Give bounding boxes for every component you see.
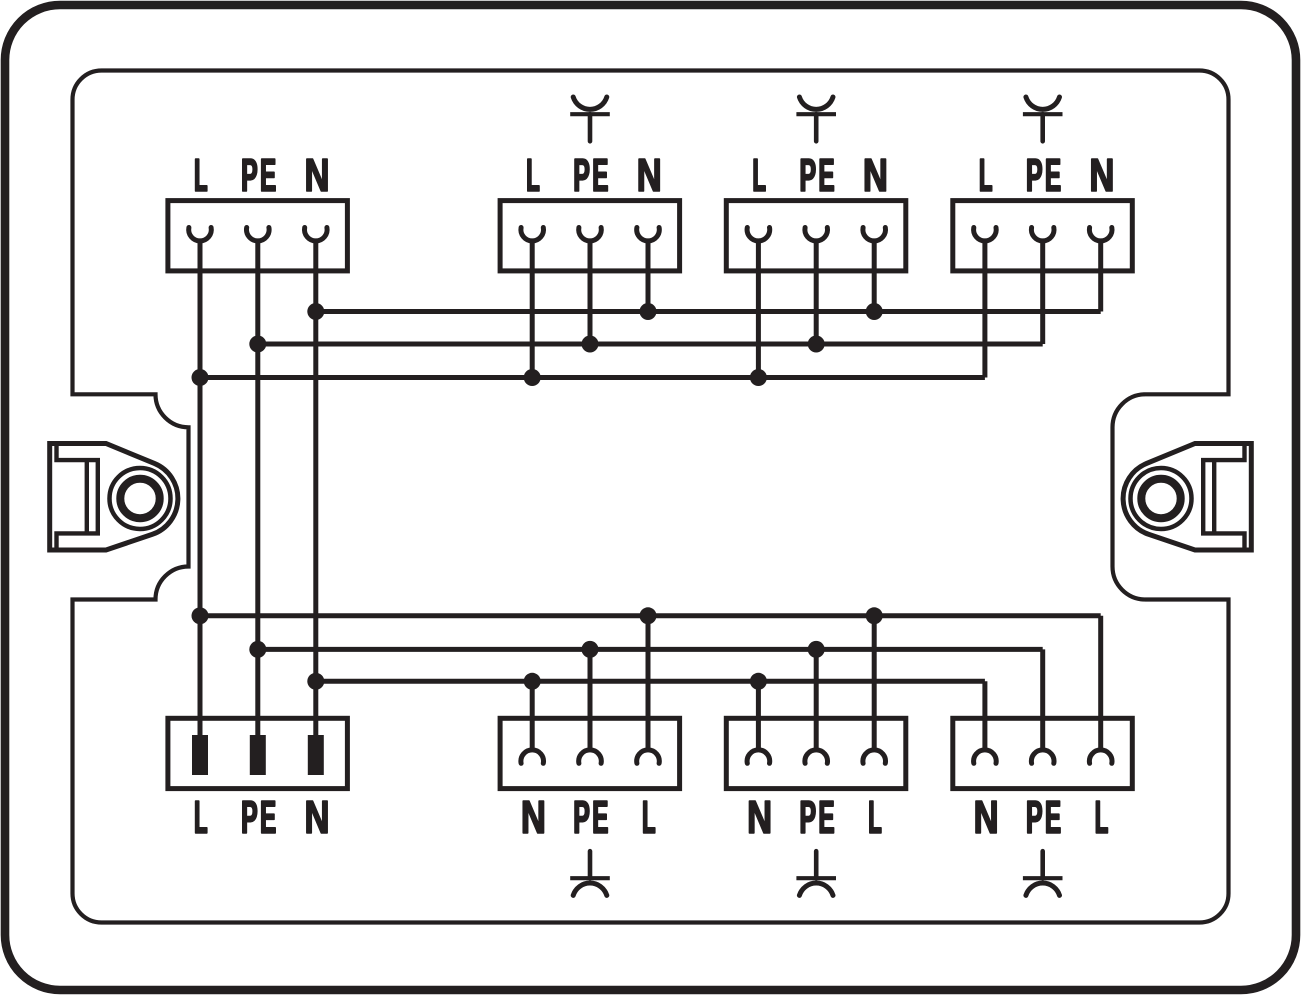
wire PE stem, top box 3 bbox=[814, 241, 819, 344]
clamp contact, top box 3, pin 1 bbox=[747, 228, 770, 241]
label N, top box 4 bbox=[1092, 159, 1112, 191]
top L bus wire bbox=[200, 375, 985, 380]
wire PE stem, top box 4 bbox=[1040, 241, 1045, 344]
wire L stem, bottom box 4 bbox=[1098, 616, 1103, 750]
junction dot bottom 1 bbox=[192, 607, 209, 624]
clamp contact, top box 1, pin 3 bbox=[305, 228, 328, 241]
label PE, top box 2 bbox=[575, 159, 589, 191]
terminal block X8 (bottom row) bbox=[953, 718, 1133, 788]
terminal block X7 (bottom row) bbox=[726, 718, 906, 788]
junction dot bottom 7 bbox=[307, 673, 324, 690]
label L, top box 2 bbox=[528, 159, 539, 191]
clamp contact, bottom box 2, pin 1 bbox=[521, 750, 544, 763]
junction dot bottom 6 bbox=[808, 641, 825, 658]
junction dot bottom 5 bbox=[582, 641, 599, 658]
junction dot bottom 4 bbox=[249, 641, 266, 658]
right mounting lug bbox=[1123, 444, 1251, 551]
label PE, bottom box 3 bbox=[801, 801, 815, 833]
terminal block X5 (bottom row) bbox=[168, 718, 348, 788]
terminal block X3 (top row) bbox=[726, 201, 906, 271]
junction dot bottom 9 bbox=[750, 673, 767, 690]
label L, top box 3 bbox=[754, 159, 765, 191]
label PE, top box 3 bbox=[801, 159, 815, 191]
enclosure inner wall with mounting-lug bays bbox=[73, 71, 1229, 923]
label N, top box 1 bbox=[307, 159, 327, 191]
junction dot top 6 bbox=[808, 336, 825, 353]
clamp contact, bottom box 3, pin 2 bbox=[805, 750, 828, 763]
blade pin, bottom box 1, pin 2 bbox=[250, 735, 266, 775]
junction dot top 3 bbox=[866, 303, 883, 320]
socket-outlet symbol above top box 4 bbox=[1023, 97, 1063, 141]
label PE, top box 1 bbox=[243, 159, 257, 191]
left mounting lug bbox=[50, 444, 178, 551]
clamp contact, top box 2, pin 2 bbox=[579, 228, 602, 241]
clamp contact, bottom box 4, pin 3 bbox=[1089, 750, 1112, 763]
label N, top box 2 bbox=[639, 159, 659, 191]
junction dot bottom 2 bbox=[640, 607, 657, 624]
clamp contact, top box 1, pin 2 bbox=[247, 228, 270, 241]
socket-outlet symbol above top box 2 bbox=[570, 97, 610, 141]
label PE, bottom box 2 bbox=[575, 801, 589, 833]
clamp contact, bottom box 2, pin 2 bbox=[579, 750, 602, 763]
wire N stem, top box 2 bbox=[646, 241, 651, 312]
wire PE stem, top box 2 bbox=[588, 241, 593, 344]
wire N stem, top box 3 bbox=[872, 241, 877, 312]
wire N stem, bottom box 2 bbox=[530, 681, 535, 750]
junction dot bottom 8 bbox=[524, 673, 541, 690]
clamp contact, top box 3, pin 2 bbox=[805, 228, 828, 241]
junction dot top 9 bbox=[750, 369, 767, 386]
socket-outlet symbol above top box 3 bbox=[796, 97, 836, 141]
clamp contact, top box 2, pin 3 bbox=[637, 228, 660, 241]
wire L stem, top box 3 bbox=[756, 241, 761, 378]
label N, bottom box 2 bbox=[523, 801, 543, 833]
junction dot top 8 bbox=[524, 369, 541, 386]
wire L stem, bottom box 2 bbox=[646, 616, 651, 750]
wire PE stem, bottom box 2 bbox=[588, 649, 593, 750]
label L, top box 1 bbox=[196, 159, 207, 191]
junction dot top 4 bbox=[249, 336, 266, 353]
wire L stem, bottom box 3 bbox=[872, 616, 877, 750]
label PE, bottom box 1 bbox=[243, 801, 257, 833]
terminal block X1 (top row) bbox=[168, 201, 348, 271]
clamp contact, top box 1, pin 1 bbox=[189, 228, 212, 241]
socket-outlet symbol below bottom box 2 bbox=[570, 851, 610, 895]
clamp contact, bottom box 2, pin 3 bbox=[637, 750, 660, 763]
clamp contact, top box 3, pin 3 bbox=[863, 228, 886, 241]
wire N from X1 down to bottom box 1 bbox=[313, 241, 318, 740]
junction dot top 2 bbox=[640, 303, 657, 320]
clamp contact, bottom box 4, pin 2 bbox=[1031, 750, 1054, 763]
label N, bottom box 1 bbox=[307, 801, 327, 833]
label L, bottom box 2 bbox=[644, 801, 655, 833]
label PE, top box 4 bbox=[1028, 159, 1042, 191]
clamp contact, bottom box 4, pin 1 bbox=[974, 750, 997, 763]
bottom L bus wire bbox=[200, 613, 1101, 618]
label L, bottom box 3 bbox=[870, 801, 881, 833]
socket-outlet symbol below bottom box 4 bbox=[1023, 851, 1063, 895]
label N, bottom box 3 bbox=[749, 801, 769, 833]
clamp contact, top box 4, pin 2 bbox=[1031, 228, 1054, 241]
socket-outlet symbol below bottom box 3 bbox=[796, 851, 836, 895]
label N, bottom box 4 bbox=[976, 801, 996, 833]
top N bus wire bbox=[316, 309, 1101, 314]
wire PE stem, bottom box 3 bbox=[814, 649, 819, 750]
label L, bottom box 1 bbox=[196, 801, 207, 833]
junction dot bottom 3 bbox=[866, 607, 883, 624]
wire L stem, top box 4 bbox=[982, 241, 987, 378]
wire N stem, bottom box 3 bbox=[756, 681, 761, 750]
clamp contact, top box 4, pin 3 bbox=[1089, 228, 1112, 241]
blade pin, bottom box 1, pin 3 bbox=[308, 735, 324, 775]
clamp contact, top box 2, pin 1 bbox=[521, 228, 544, 241]
junction dot top 5 bbox=[582, 336, 599, 353]
terminal block X6 (bottom row) bbox=[500, 718, 679, 788]
wire N stem, top box 4 bbox=[1098, 241, 1103, 312]
label L, bottom box 4 bbox=[1096, 801, 1107, 833]
wire L stem, top box 2 bbox=[530, 241, 535, 378]
clamp contact, bottom box 3, pin 1 bbox=[747, 750, 770, 763]
junction dot top 1 bbox=[307, 303, 324, 320]
label PE, bottom box 4 bbox=[1028, 801, 1042, 833]
wire N stem, bottom box 4 bbox=[982, 681, 987, 750]
bottom PE bus wire bbox=[258, 647, 1043, 652]
bottom N bus wire bbox=[316, 679, 985, 684]
junction dot top 7 bbox=[192, 369, 209, 386]
wire PE stem, bottom box 4 bbox=[1040, 649, 1045, 750]
clamp contact, bottom box 3, pin 3 bbox=[863, 750, 886, 763]
terminal block X2 (top row) bbox=[500, 201, 679, 271]
blade pin, bottom box 1, pin 1 bbox=[192, 735, 208, 775]
label L, top box 4 bbox=[981, 159, 992, 191]
label N, top box 3 bbox=[865, 159, 885, 191]
top PE bus wire bbox=[258, 342, 1043, 347]
wire PE from X1 down to bottom box 1 bbox=[255, 241, 260, 740]
wire L from X1 down to bottom box 1 bbox=[198, 241, 203, 740]
terminal block X4 (top row) bbox=[953, 201, 1133, 271]
clamp contact, top box 4, pin 1 bbox=[974, 228, 997, 241]
